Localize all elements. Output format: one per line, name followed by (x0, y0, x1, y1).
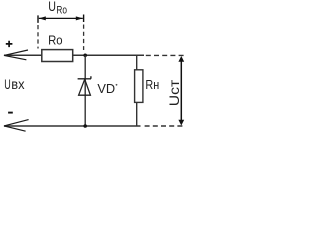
input terminal arrow (+) (4, 50, 28, 60)
node junction bottom (83, 124, 87, 128)
dashed leader bottom right (145, 125, 186, 127)
node junction top (83, 54, 87, 58)
resistor Rn (135, 70, 143, 103)
input terminal arrow (-) (4, 120, 29, 132)
zener diode VD triangle (79, 79, 91, 95)
plus sign (6, 41, 13, 47)
resistor Ro (42, 50, 73, 62)
wire Rn top lead (136, 55, 138, 70)
svg-text:Uвх: Uвх (4, 77, 24, 92)
dashed extension line left (37, 25, 39, 49)
wire bottom rail (4, 125, 141, 127)
wire top rail (4, 54, 144, 56)
svg-text:Ro: Ro (56, 5, 67, 17)
dimension line U_Ro with arrows (38, 15, 84, 23)
minus sign (8, 112, 13, 114)
dashed leader top right (146, 54, 186, 56)
svg-text:Rн: Rн (145, 77, 159, 92)
wire zener branch (84, 55, 86, 126)
svg-text:U: U (48, 0, 56, 14)
zener diode VD cathode bar (78, 76, 91, 79)
stray dot after VD (116, 84, 118, 86)
svg-text:VD: VD (97, 81, 115, 96)
svg-text:Ro: Ro (48, 33, 63, 48)
svg-text:Uст: Uст (167, 80, 182, 107)
Ust measurement arrow (180, 58, 182, 123)
dashed extension line right (83, 25, 85, 51)
wire Rn bottom lead (136, 102, 138, 126)
